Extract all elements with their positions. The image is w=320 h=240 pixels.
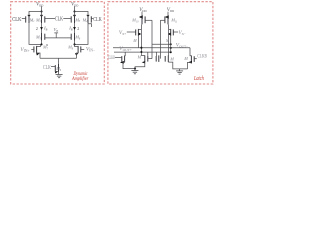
junction dot cross upper right	[170, 43, 172, 45]
wire VDD1 stub	[41, 6, 43, 11]
svg-text:CLKB: CLKB	[197, 55, 207, 60]
svg-text:M4: M4	[82, 17, 89, 23]
transistor M2 (clock pmos inner-left)	[35, 15, 55, 23]
ground right latch	[176, 69, 183, 74]
svg-text:M5: M5	[35, 35, 42, 41]
junction dot ground-L tap	[134, 68, 136, 70]
wire VDD2 stub	[74, 6, 76, 11]
svg-text:2: 2	[36, 26, 38, 31]
svg-text:IB: IB	[68, 26, 72, 32]
wire latch gate rail left	[151, 20, 153, 58]
transistor M9 (tail clock nmos)	[51, 64, 62, 74]
svg-text:CLK: CLK	[12, 16, 22, 23]
svg-text:Latch: Latch	[193, 76, 204, 82]
transistor M15 (cross nmos left)	[135, 55, 152, 70]
svg-text:CLK: CLK	[43, 65, 51, 71]
mid stub right	[155, 52, 157, 56]
transistor M7 (input nmos left)	[31, 44, 48, 58]
transistor M11 (latch pmos right)	[160, 15, 178, 24]
ground (amplifier)	[56, 72, 63, 78]
svg-text:VIN−: VIN−	[86, 47, 95, 53]
svg-text:M3: M3	[74, 17, 81, 23]
svg-text:M11: M11	[170, 18, 178, 24]
transistor M12 (latch input left)	[127, 29, 142, 48]
transistor M8 (input nmos right)	[67, 44, 84, 58]
dashed border left box	[11, 2, 105, 84]
transistor M1 (clock pmos left)	[22, 15, 36, 23]
wire M4 drain rail down to node Y	[75, 23, 89, 44]
wire M2 drain to M5	[41, 23, 43, 33]
dashed border right box	[108, 2, 213, 84]
svg-text:VB: VB	[54, 27, 59, 33]
svg-text:M8: M8	[67, 45, 74, 51]
current arrow 2IB left	[40, 27, 43, 30]
wire tail rail	[40, 57, 77, 59]
wire latch output rail left	[140, 24, 143, 55]
wire top rail right	[75, 12, 89, 16]
svg-text:M9: M9	[55, 66, 62, 72]
transistor M6 (cascode right)	[71, 33, 81, 41]
svg-text:VX−: VX−	[179, 30, 186, 36]
svg-text:VOUT−: VOUT−	[176, 43, 188, 49]
wire M4 drain hook	[88, 24, 92, 27]
node Y dot	[73, 43, 75, 45]
wire cross coupling upper	[152, 43, 171, 45]
node X dot	[40, 43, 42, 45]
svg-text:M: M	[137, 55, 142, 60]
mid stub left	[147, 52, 149, 56]
current arrow 2IB right	[73, 27, 76, 30]
svg-text:M: M	[132, 39, 137, 43]
svg-text:M1: M1	[29, 17, 36, 23]
ground left latch	[131, 71, 138, 74]
wire VDD stub latch left	[141, 12, 143, 16]
wire vout+ cross lower	[113, 47, 190, 49]
transistor M17 (latch nmos right outer)	[165, 55, 187, 69]
transistor M13 (latch input right)	[168, 29, 178, 52]
svg-text:VDD: VDD	[36, 1, 43, 7]
svg-text:VOUT+: VOUT+	[119, 46, 131, 52]
wire M1 drain rail down to node X	[29, 23, 42, 44]
svg-text:VDD: VDD	[139, 7, 146, 13]
wire cascode bias rail	[45, 37, 71, 39]
transistor M4 (clock pmos right)	[82, 15, 94, 23]
svg-text:M2: M2	[35, 17, 42, 23]
transistor M18 (reset switch right)	[183, 48, 196, 69]
svg-text:2: 2	[77, 26, 79, 31]
wire M3 drain to M6	[74, 23, 76, 33]
bias label stub	[54, 33, 58, 38]
svg-text:VIN+: VIN+	[20, 47, 29, 53]
wire VDD stub latch right	[167, 12, 169, 16]
svg-text:M10: M10	[131, 18, 139, 24]
svg-text:Amplifier: Amplifier	[71, 75, 89, 82]
svg-text:M: M	[169, 57, 174, 62]
svg-text:M: M	[183, 56, 188, 61]
junction dot vout- drop	[170, 47, 172, 49]
wire M3 source stub	[74, 12, 76, 16]
wire M5 drain to node X	[41, 41, 43, 45]
svg-text:M6: M6	[74, 35, 81, 41]
transistor M14 (reset switch left)	[115, 52, 135, 69]
junction dot vout+ rail	[140, 47, 142, 49]
transistor M3 (clock pmos inner-right)	[63, 15, 81, 23]
wire latch output rail right	[167, 24, 170, 55]
svg-text:CLK: CLK	[93, 16, 102, 23]
wire mid equalize	[114, 51, 171, 53]
svg-text:CLKB: CLKB	[108, 55, 115, 61]
wire tail tap down	[58, 58, 60, 64]
node junction dot VDD1	[40, 10, 42, 12]
svg-text:IB: IB	[43, 26, 47, 32]
wire M2 source stub	[41, 12, 43, 16]
transistor M5 (cascode left)	[35, 33, 45, 41]
junction dot mid right	[170, 51, 172, 53]
svg-text:M: M	[165, 39, 170, 43]
junction dot mid left	[140, 51, 142, 53]
svg-text:CLK: CLK	[55, 16, 63, 22]
svg-text:VX+: VX+	[119, 30, 126, 36]
wire M6 drain to node Y	[74, 41, 76, 45]
wire latch gate rail right	[159, 20, 161, 58]
transistor M16 (cross nmos right)	[137, 55, 159, 62]
wire top rail left	[29, 12, 42, 16]
transistor M10 (latch pmos left)	[131, 15, 152, 24]
node junction dot VDD2	[73, 10, 75, 12]
